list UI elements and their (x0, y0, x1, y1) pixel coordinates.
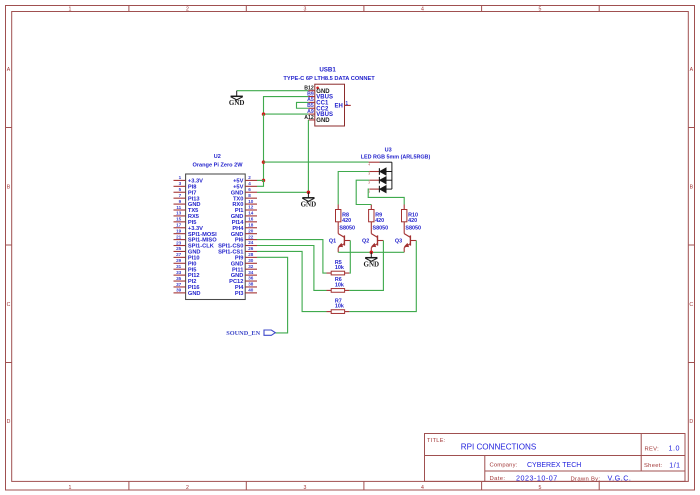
LED U3 red diode (369, 168, 392, 175)
frame row ticks left (6, 128, 12, 363)
svg-text:GND: GND (316, 118, 330, 124)
svg-text:1: 1 (179, 175, 182, 180)
svg-text:4: 4 (421, 485, 424, 491)
R5 labels (335, 260, 344, 271)
svg-text:5: 5 (539, 7, 542, 13)
svg-text:U3: U3 (385, 147, 392, 153)
USB1 pin numbers B12 B9 A5 B5 A9 A12 (304, 86, 314, 121)
svg-text:31: 31 (176, 264, 182, 269)
svg-text:7: 7 (179, 193, 182, 198)
svg-text:29: 29 (176, 258, 182, 263)
svg-text:13: 13 (176, 211, 182, 216)
USB1 shield pin 1 stub (345, 104, 351, 106)
svg-text:33: 33 (176, 270, 182, 275)
svg-text:C: C (689, 302, 693, 308)
svg-text:LED RGB 5mm (ARL5RGB): LED RGB 5mm (ARL5RGB) (361, 154, 431, 160)
wire USB1-A12 to ground (257, 120, 308, 192)
wire LED green cathode to R9 (356, 180, 371, 204)
svg-text:REV:: REV: (645, 447, 660, 453)
svg-text:15: 15 (176, 217, 182, 222)
svg-text:36: 36 (248, 276, 254, 281)
frame row letters right (689, 67, 693, 425)
svg-text:TYPE-C 6P LTH8.5 DATA CONNET: TYPE-C 6P LTH8.5 DATA CONNET (283, 76, 375, 82)
wire Q3 base to R7 (349, 241, 416, 312)
svg-text:S8050: S8050 (339, 226, 355, 232)
svg-text:37: 37 (176, 282, 182, 287)
svg-text:21: 21 (176, 234, 182, 239)
svg-text:25: 25 (176, 246, 182, 251)
wire +5V to LED common anode (264, 161, 369, 163)
wire R7 to U2 pin26 (257, 251, 327, 311)
U2 left pin stubs (pins 1-39 odd) (174, 180, 186, 292)
frame row ticks right (688, 128, 694, 363)
junction +5V at U2 pin2 (262, 179, 266, 183)
svg-text:5: 5 (179, 187, 182, 192)
U2 right pin names (218, 179, 244, 297)
frame column ticks top (129, 6, 599, 12)
svg-text:SOUND_EN: SOUND_EN (226, 330, 260, 337)
junction GND2 node (307, 191, 311, 195)
svg-text:Q1: Q1 (329, 239, 336, 245)
wire USB1-B12 to ground (237, 90, 309, 92)
R10 labels R 420 S8050 (405, 213, 421, 232)
svg-text:D: D (689, 419, 693, 425)
svg-text:2: 2 (186, 485, 189, 491)
svg-text:3: 3 (304, 485, 307, 491)
svg-text:6: 6 (248, 187, 251, 192)
svg-text:10k: 10k (335, 265, 344, 271)
svg-text:40: 40 (248, 288, 254, 293)
svg-text:U2: U2 (214, 154, 221, 160)
junction emitter rail at Q2 (370, 251, 374, 255)
svg-text:20: 20 (248, 228, 254, 233)
U2 right pin stubs (pins 2-40 even) (245, 180, 257, 292)
junction +5V at A9 (262, 112, 266, 116)
svg-text:22: 22 (248, 234, 254, 239)
wire +5V vertical rail (263, 114, 265, 180)
svg-text:9: 9 (179, 199, 182, 204)
LED U3 blue diode (369, 186, 392, 193)
resistor R6 10k (327, 289, 350, 293)
resistor R5 10k (327, 271, 350, 275)
svg-text:4: 4 (248, 181, 251, 186)
transistor Q3 S8050 (404, 227, 416, 253)
svg-text:2: 2 (186, 7, 189, 13)
svg-text:10k: 10k (335, 304, 344, 310)
wire R6 to U2 pin24 (257, 246, 327, 291)
svg-text:GND: GND (364, 261, 380, 269)
svg-text:USB1: USB1 (319, 67, 336, 74)
svg-text:3: 3 (179, 181, 182, 186)
svg-text:GND: GND (229, 99, 245, 107)
svg-text:39: 39 (176, 288, 182, 293)
connector USB1 body (315, 84, 345, 126)
wire LED red cathode to R8 (338, 172, 369, 205)
svg-text:TITLE:: TITLE: (427, 438, 446, 444)
svg-text:420: 420 (375, 218, 384, 224)
svg-text:27: 27 (176, 252, 182, 257)
svg-text:420: 420 (408, 218, 417, 224)
svg-text:C: C (7, 302, 11, 308)
svg-text:A12: A12 (304, 115, 314, 121)
transistor Q2 S8050 (371, 227, 383, 253)
junction +5V to LED branch (262, 160, 266, 164)
U2 left pin names (188, 179, 217, 297)
svg-text:14: 14 (248, 211, 254, 216)
wire Q2 base to R6 (349, 241, 383, 291)
wire U2 pin28 to SOUND_EN flag (257, 257, 288, 333)
svg-text:V.G.C.: V.G.C. (608, 473, 632, 482)
svg-text:5: 5 (539, 485, 542, 491)
svg-text:30: 30 (248, 258, 254, 263)
R8 labels R 420 S8050 (339, 213, 355, 232)
svg-text:10: 10 (248, 199, 254, 204)
svg-text:Sheet:: Sheet: (644, 463, 663, 469)
svg-text:11: 11 (176, 205, 181, 210)
svg-text:1.0: 1.0 (669, 444, 681, 453)
LED U3 common anode pin stub (369, 161, 380, 163)
U2 left pin numbers (176, 175, 182, 292)
svg-text:Q3: Q3 (395, 239, 402, 245)
svg-text:RPI CONNECTIONS: RPI CONNECTIONS (461, 443, 537, 452)
net flag SOUND_EN (264, 330, 275, 335)
svg-text:26: 26 (248, 246, 254, 251)
wire R5 to U2 pin22 (257, 240, 327, 273)
wire USB1-B9 VBUS to +5V rail (264, 97, 309, 115)
svg-text:B: B (690, 184, 694, 190)
title block border (425, 434, 686, 482)
ground GND1 near USB1 (236, 91, 238, 97)
R6 labels (335, 277, 344, 288)
svg-text:1: 1 (345, 101, 348, 107)
svg-text:A: A (690, 67, 694, 73)
frame row letters left (7, 67, 11, 425)
svg-text:S8050: S8050 (373, 226, 389, 232)
R9 labels R 420 S8050 (373, 213, 389, 232)
svg-text:16: 16 (248, 217, 254, 222)
resistor R7 10k (327, 310, 350, 314)
frame column numbers bottom (69, 485, 542, 491)
svg-text:34: 34 (248, 270, 254, 275)
svg-text:420: 420 (342, 218, 351, 224)
U3 pin number marks (369, 163, 371, 193)
LED U3 green diode (369, 177, 392, 184)
USB1 pin-1 marker dot (316, 87, 319, 90)
svg-text:19: 19 (176, 228, 182, 233)
resistor R8 420 (336, 205, 341, 227)
frame column numbers top (69, 7, 542, 13)
svg-text:35: 35 (176, 276, 182, 281)
svg-text:Company:: Company: (490, 463, 518, 469)
wire +5V to U2 pin2 (257, 179, 264, 181)
svg-text:Drawn By:: Drawn By: (571, 477, 601, 483)
svg-text:1/1: 1/1 (669, 462, 680, 469)
wire common emitter rail (338, 251, 404, 253)
svg-text:1: 1 (69, 485, 72, 491)
U3 common anode rail (380, 162, 392, 189)
svg-text:Date:: Date: (490, 476, 506, 482)
USB1 pin names GND VBUS CC1 CC2 VBUS GND (316, 89, 333, 124)
R7 labels (335, 298, 344, 309)
svg-text:4: 4 (421, 7, 424, 13)
U2 right pin numbers (248, 175, 254, 292)
ground GND2 below USB1 (307, 192, 309, 198)
svg-text:32: 32 (248, 264, 254, 269)
IC U2 body (186, 174, 246, 300)
svg-text:GND: GND (301, 201, 317, 209)
svg-text:S8050: S8050 (405, 226, 421, 232)
ground GND3 below Q2 (370, 252, 372, 257)
svg-text:PI3: PI3 (235, 291, 244, 297)
svg-text:A: A (7, 67, 11, 73)
svg-text:17: 17 (176, 223, 182, 228)
svg-text:12: 12 (248, 205, 254, 210)
svg-text:GND: GND (188, 291, 201, 297)
svg-text:18: 18 (248, 222, 254, 227)
svg-text:2: 2 (248, 175, 251, 180)
svg-text:24: 24 (248, 240, 254, 245)
svg-text:B: B (7, 184, 11, 190)
svg-text:1: 1 (69, 7, 72, 13)
svg-text:3: 3 (304, 7, 307, 13)
svg-text:28: 28 (248, 252, 254, 257)
wire +5V to U2 pin4 (257, 180, 264, 186)
svg-text:10k: 10k (335, 282, 344, 288)
svg-text:Q2: Q2 (362, 239, 369, 245)
wire Q1 base to R5 (348, 241, 351, 274)
svg-text:23: 23 (176, 240, 182, 245)
svg-text:38: 38 (248, 282, 254, 287)
wire CC1-CC2 jumper (297, 102, 309, 108)
transistor Q1 S8050 (338, 227, 350, 253)
frame column ticks bottom (129, 481, 599, 490)
resistor R9 420 (369, 205, 374, 227)
svg-text:Orange Pi Zero 2W: Orange Pi Zero 2W (192, 163, 243, 169)
svg-text:2023-10-07: 2023-10-07 (516, 473, 558, 482)
svg-text:D: D (7, 419, 11, 425)
wire USB1-A9 VBUS to +5V rail (264, 113, 309, 115)
USB1 left pin stubs (308, 91, 315, 120)
svg-text:8: 8 (248, 193, 251, 198)
resistor R10 420 (402, 205, 407, 227)
svg-text:EH: EH (334, 104, 342, 110)
svg-text:CYBEREX TECH: CYBEREX TECH (527, 462, 581, 469)
wire LED blue cathode to R10 (368, 189, 404, 204)
